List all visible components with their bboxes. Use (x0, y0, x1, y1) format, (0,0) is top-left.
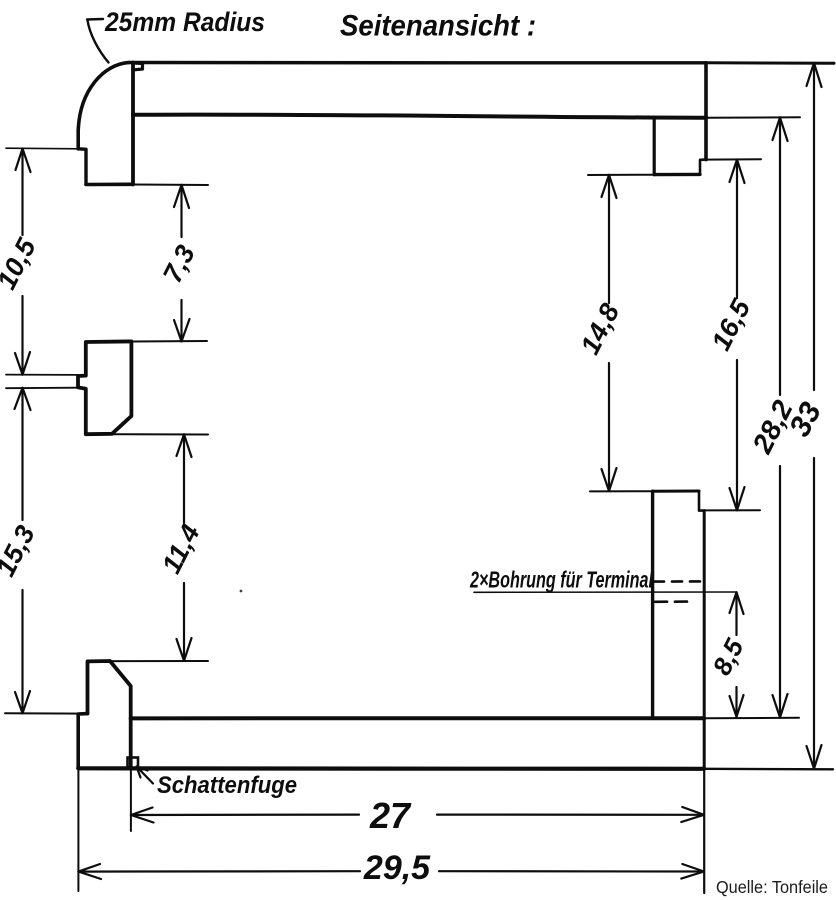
svg-text:Seitenansicht :: Seitenansicht : (340, 10, 536, 43)
bottom left batten outline (88, 661, 131, 767)
svg-text:8,5: 8,5 (706, 634, 749, 680)
front baffle outer edge (76, 131, 80, 149)
top right batten bottom edge (654, 173, 700, 177)
top panel bottom edge (133, 115, 706, 118)
bottom board left jog (78, 714, 87, 769)
svg-text:33: 33 (783, 397, 828, 442)
extension line 29,5 left (77, 769, 79, 891)
extension line 14,8 bottom (590, 490, 653, 492)
dimension 8,5 shaft (735, 592, 737, 717)
svg-text:2×Bohrung für Terminal: 2×Bohrung für Terminal (469, 567, 653, 593)
dimension 10,5 arrowheads (15, 149, 31, 375)
dimension 29,5 shaft (78, 870, 704, 873)
extension line 28,2 top (706, 116, 800, 119)
top right batten step (700, 160, 706, 175)
dimension 11,4 arrowheads (177, 434, 192, 661)
top panel top edge (129, 62, 706, 63)
speck (240, 590, 243, 593)
svg-text:27: 27 (369, 795, 412, 836)
svg-text:15,3: 15,3 (0, 521, 41, 581)
extension line 10,5 top (6, 147, 80, 150)
dimension 27 shaft (131, 813, 704, 816)
cabinet right edge bottom (703, 511, 706, 769)
extension line 28,2 bottom (704, 717, 799, 719)
dimension 28,2 shaft (779, 117, 781, 717)
extension line 14,8 top (588, 174, 654, 176)
svg-text:11,4: 11,4 (156, 520, 206, 579)
extension line 10,5 bottom (6, 374, 78, 376)
svg-text:Quelle: Tonfeile: Quelle: Tonfeile (716, 877, 828, 897)
extension line 11,4 bottom (87, 660, 208, 662)
dimension 11,4 shaft (183, 434, 185, 661)
svg-text:10,5: 10,5 (0, 233, 42, 294)
dimension 16,5 shaft (736, 160, 738, 511)
back panel step (699, 491, 704, 511)
svg-text:Schattenfuge: Schattenfuge (157, 772, 297, 799)
bottom board bottom edge (78, 766, 704, 771)
leader line to arc (88, 20, 109, 63)
dimension 15,3 shaft (21, 388, 23, 714)
bottom board top edge (131, 716, 705, 720)
dimension 10,5 shaft (21, 149, 23, 375)
dimension 15,3 arrowheads (15, 388, 31, 714)
svg-text:25mm Radius: 25mm Radius (104, 7, 265, 37)
cabinet right edge top (704, 63, 708, 160)
extension line 7,3 top (133, 184, 208, 187)
middle left batten outline (78, 341, 131, 434)
baffle bottom edge (86, 183, 133, 187)
dimension 28,2 arrowheads (773, 117, 788, 717)
dimension 16,5 arrowheads (730, 160, 745, 511)
extension line 16,5 top (706, 158, 761, 160)
extension line 15,3 top (6, 387, 78, 390)
svg-text:29,5: 29,5 (363, 849, 431, 887)
dimension 29,5 arrowheads (78, 864, 704, 879)
back panel top edge (653, 490, 699, 493)
terminal dashed hole line upper (654, 580, 702, 583)
dimension 14,8 shaft (608, 175, 610, 491)
extension line 16,5 bottom (704, 509, 760, 511)
terminal underline / 8,5 top extension (474, 591, 736, 593)
dimension 14,8 arrowheads (602, 175, 617, 491)
extension line 27 and 29,5 right (703, 769, 705, 893)
Schattenfuge marker square (128, 758, 139, 769)
front baffle rounded corner arc (78, 63, 129, 132)
Schattenfuge arrow (137, 767, 154, 784)
extension line 33 bottom (704, 768, 833, 771)
small notch at baffle top (134, 63, 143, 70)
terminal dashed hole line lower (655, 600, 689, 603)
back panel left edge (651, 491, 654, 717)
dimension 33 shaft (813, 63, 815, 769)
dimension 8,5 arrowheads (730, 592, 744, 717)
extension line 33 top (706, 61, 834, 64)
baffle step (78, 149, 86, 184)
extension line 11,4 top (86, 433, 208, 435)
extension line 15,3 bottom (5, 712, 87, 714)
svg-text:16,5: 16,5 (706, 294, 757, 355)
extension line 7,3 bottom (132, 340, 207, 343)
dimension 7,3 shaft (180, 185, 182, 342)
extension line 27 left (130, 771, 132, 831)
dimension 33 arrowheads (807, 63, 822, 769)
svg-text:7,3: 7,3 (157, 240, 201, 287)
dimension 27 arrowheads (131, 807, 704, 823)
top right batten left edge (653, 118, 656, 175)
svg-text:14,8: 14,8 (575, 299, 626, 359)
front baffle inner edge (131, 63, 135, 185)
dimension 7,3 arrowheads (174, 185, 190, 342)
leader tick for 25mm Radius (87, 18, 103, 21)
